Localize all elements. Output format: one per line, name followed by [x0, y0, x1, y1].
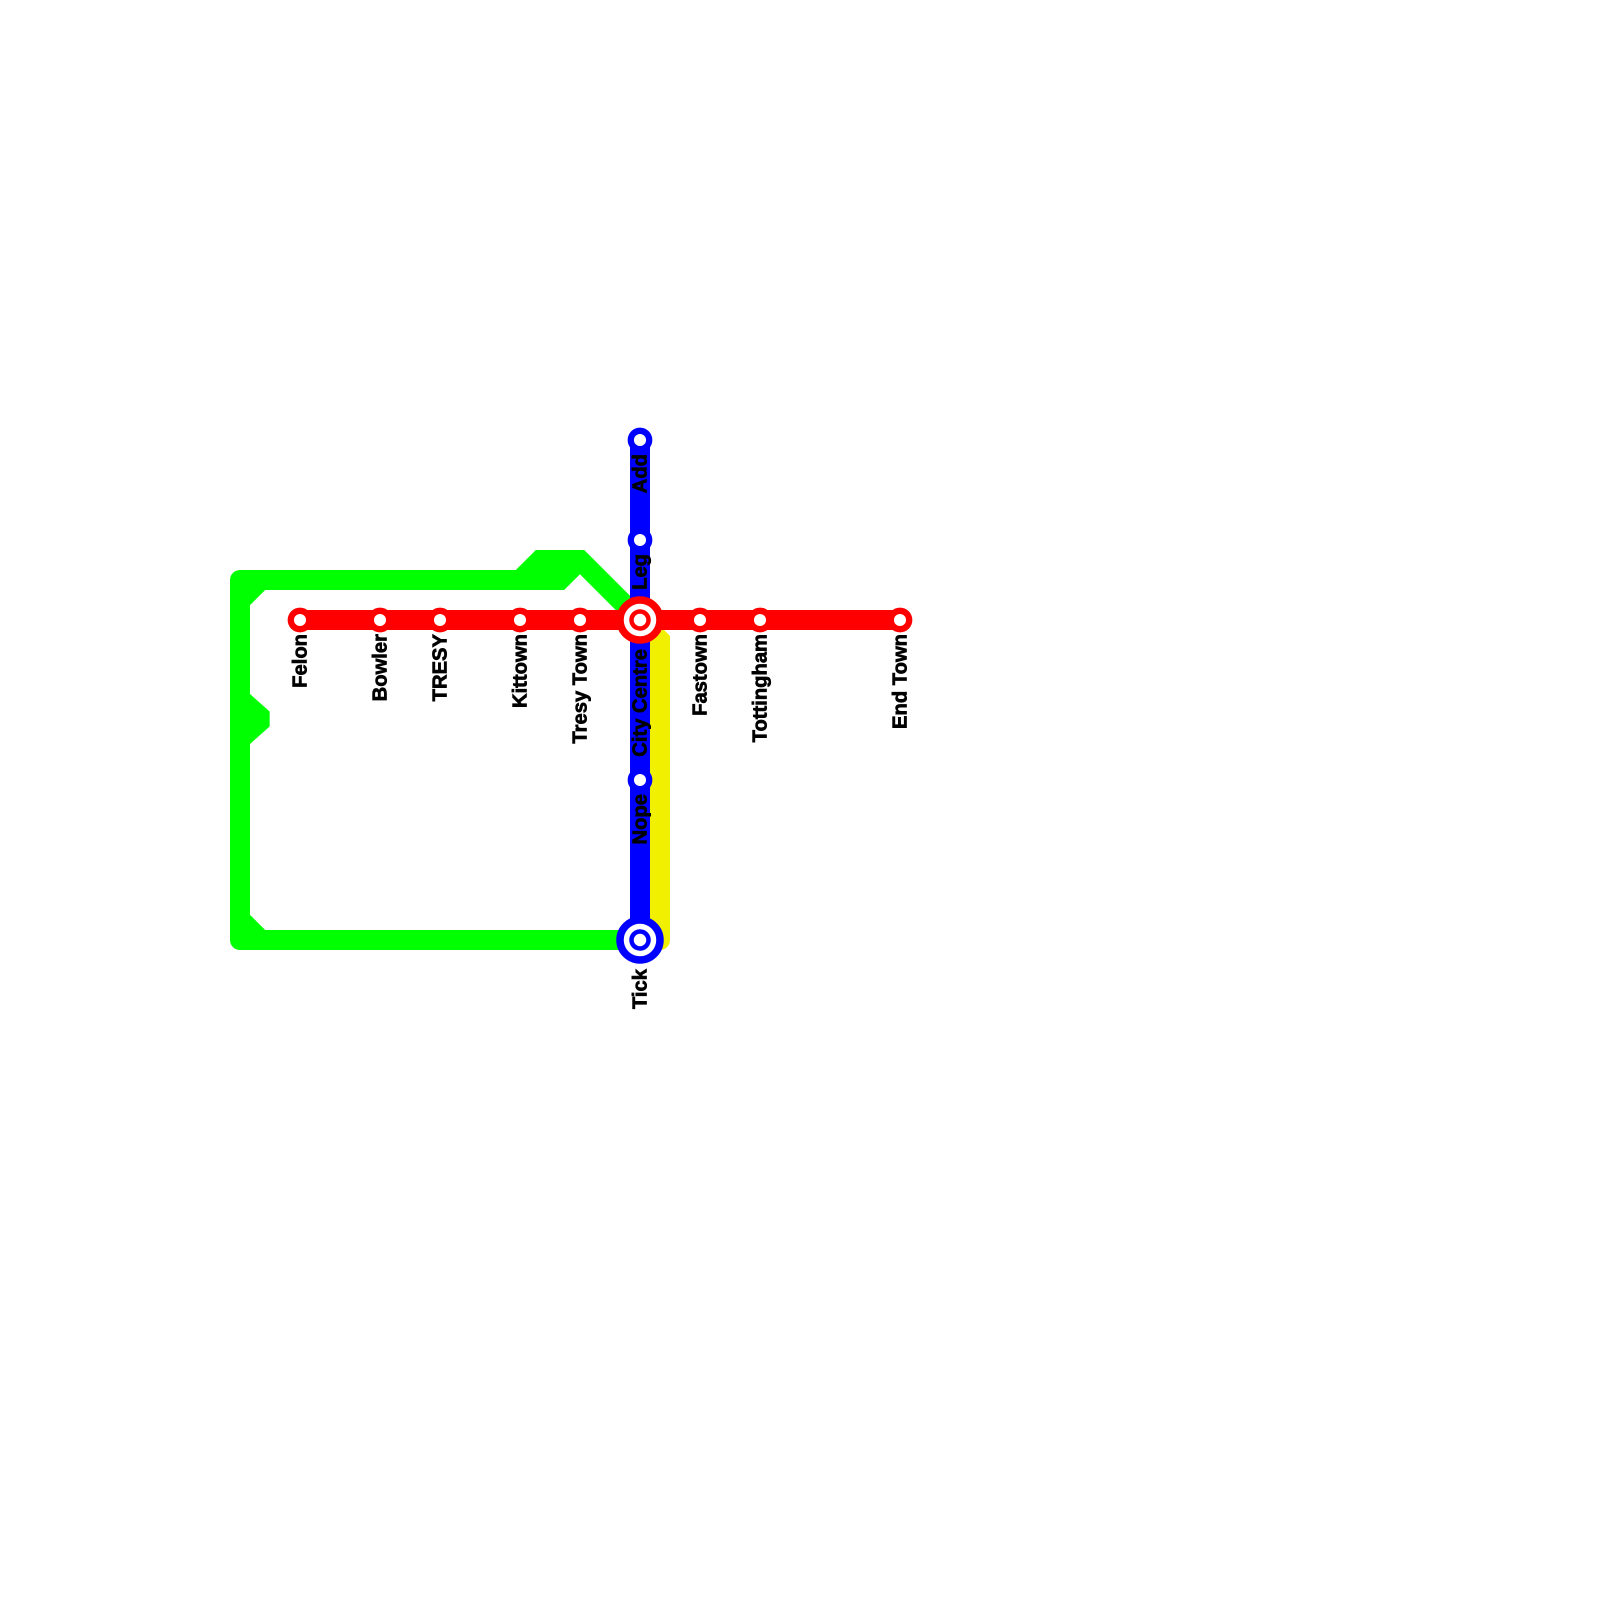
- svg-text:Tresy Town: Tresy Town: [569, 634, 591, 744]
- svg-text:TRESY: TRESY: [429, 633, 451, 701]
- svg-text:Bowler: Bowler: [369, 634, 391, 701]
- svg-text:Felon: Felon: [289, 634, 311, 688]
- svg-text:Leg: Leg: [629, 554, 651, 590]
- svg-text:Fastown: Fastown: [689, 634, 711, 716]
- svg-text:Kittown: Kittown: [509, 634, 531, 708]
- svg-text:City Centre: City Centre: [629, 649, 651, 757]
- svg-text:Nope: Nope: [629, 794, 651, 844]
- svg-text:Tick: Tick: [629, 968, 651, 1009]
- svg-text:Tottingham: Tottingham: [749, 634, 771, 742]
- svg-text:End Town: End Town: [889, 634, 911, 729]
- svg-text:Add: Add: [629, 454, 651, 493]
